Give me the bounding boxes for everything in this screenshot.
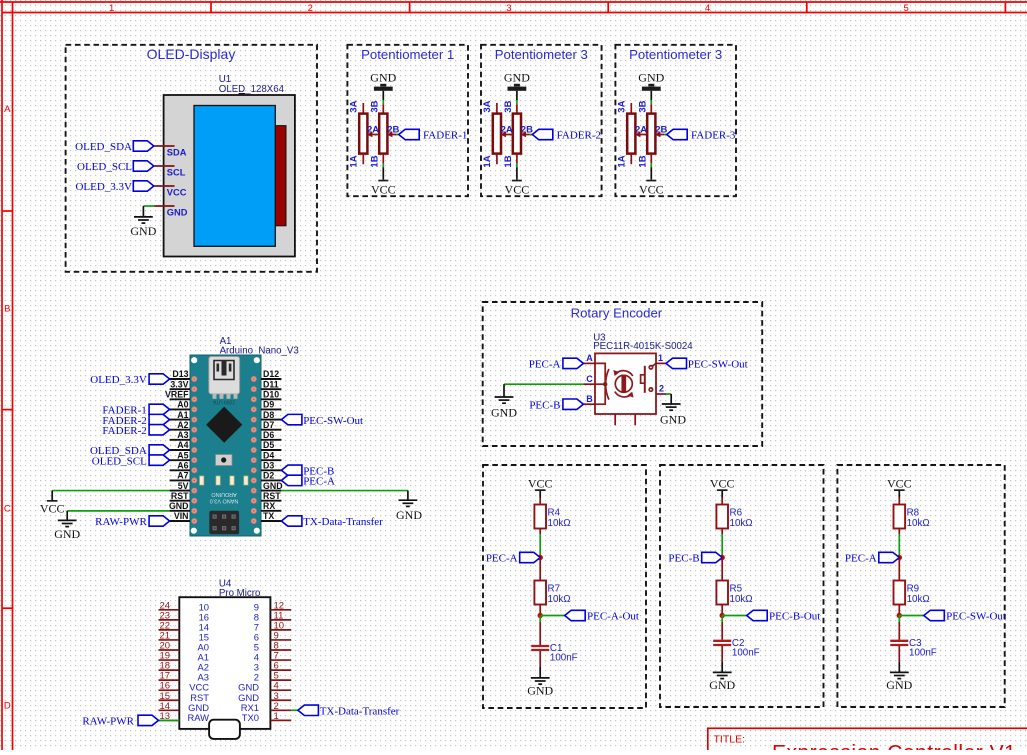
svg-text:OLED_SCL: OLED_SCL (92, 455, 147, 467)
wire to out junction (539, 605, 541, 616)
encoder pin B (583, 394, 595, 404)
svg-text:D9: D9 (263, 400, 274, 410)
power VCC (887, 476, 912, 491)
svg-text:1A: 1A (348, 155, 359, 167)
svg-text:GND: GND (396, 508, 422, 522)
junction node out (720, 613, 725, 618)
wire gnd to 3B (516, 91, 518, 104)
Rotary Encoder block frame (483, 302, 763, 446)
svg-text:R9: R9 (907, 583, 920, 594)
svg-text:PEC-A: PEC-A (486, 553, 518, 565)
wire junction to cap (721, 616, 723, 640)
net flag FADER-2 (532, 129, 601, 141)
net flag PEC-A at U3 (529, 358, 584, 370)
Potentiometer 3 block frame (FADER-2) (481, 45, 602, 196)
svg-text:VCC: VCC (505, 182, 530, 196)
svg-text:VREF: VREF (165, 389, 189, 399)
svg-text:1: 1 (109, 3, 114, 14)
svg-text:GND: GND (709, 678, 735, 692)
wire to PEC-B-Out flag (722, 615, 747, 617)
net flag PEC-A at A1 (281, 475, 335, 487)
svg-text:5V: 5V (178, 481, 189, 491)
net flag PEC-B at U3 (529, 399, 583, 411)
wire 2B to FADER-3 (664, 134, 667, 136)
pin 13 (RAW) of U4 (159, 711, 210, 723)
net flag PEC-SW-Out at U3 (666, 358, 748, 370)
junction at encoder C (603, 382, 607, 386)
net flag FADER-1 (399, 129, 468, 141)
wire VCC to top resistor (898, 491, 900, 505)
wire gnd to 3B (650, 91, 652, 104)
wire to junction (539, 529, 541, 558)
svg-text:3A: 3A (616, 100, 627, 112)
net flag PEC-A (486, 552, 540, 564)
wire junction to cap (898, 616, 900, 640)
svg-text:OLED-Display: OLED-Display (147, 46, 236, 62)
svg-text:10kΩ: 10kΩ (730, 518, 753, 529)
svg-text:A0: A0 (177, 400, 188, 410)
VCC at pot (505, 180, 530, 197)
pin RX (right) of A1 (261, 501, 281, 511)
power VCC (710, 476, 735, 491)
pin A0 (left 4) of A1 (170, 400, 190, 410)
pot gang A (627, 103, 635, 164)
svg-text:1B: 1B (503, 155, 514, 167)
pin D6 (right) of A1 (261, 430, 281, 440)
svg-text:R6: R6 (730, 507, 743, 518)
svg-text:D: D (4, 701, 11, 712)
net flag PEC-B at A1 (281, 465, 334, 477)
wiper 2A arrow (367, 132, 379, 137)
resistor R4 10k (534, 505, 570, 530)
Potentiometer 1 block frame (FADER-1) (347, 45, 468, 196)
svg-text:10kΩ: 10kΩ (907, 518, 930, 529)
Potentiometer 3 title (495, 47, 588, 62)
svg-text:SDA: SDA (167, 147, 187, 157)
encoder pin A (583, 353, 595, 363)
pin 24 (10) of U4 (159, 600, 210, 612)
net flag TX-Data-Transfer at A1 (281, 516, 383, 528)
pin A7 (left 11) of A1 (170, 471, 190, 481)
resistor R6 10k (716, 505, 752, 530)
wire junction to bottom resistor (539, 558, 541, 581)
svg-text:PEC-SW-Out: PEC-SW-Out (946, 611, 1006, 623)
svg-text:RAW-PWR: RAW-PWR (95, 516, 147, 528)
pin 3 (GND) of U4 (238, 691, 291, 703)
wiper 2A arrow (501, 132, 513, 137)
junction node out (897, 613, 902, 618)
svg-text:PEC-SW-Out: PEC-SW-Out (303, 415, 363, 427)
net flag PEC-A (845, 552, 899, 564)
pin D4 (right) of A1 (261, 450, 281, 460)
pin 10 (7) of U4 (254, 620, 291, 632)
encoder internals (595, 363, 656, 404)
op U1 refdes (219, 74, 285, 95)
svg-text:GND: GND (660, 412, 686, 426)
wire pin2 to GND (666, 394, 671, 404)
pin 1 (TX0) of U4 (242, 711, 291, 723)
svg-text:R7: R7 (548, 583, 561, 594)
svg-text:PEC-B: PEC-B (529, 399, 560, 411)
Potentiometer 3 block frame (FADER-3) (615, 45, 736, 196)
svg-text:RST: RST (171, 491, 189, 501)
wire GND to U1 (143, 206, 154, 217)
capacitor C2 100nF (713, 641, 731, 645)
svg-text:Expression Controller V1: Expression Controller V1 (772, 742, 1016, 751)
pin 3.3V (left 2) of A1 (170, 379, 190, 389)
svg-text:D10: D10 (263, 389, 279, 399)
svg-text:A5: A5 (177, 450, 188, 460)
svg-text:GND: GND (527, 684, 553, 698)
net flag PEC-B-Out (747, 610, 821, 622)
pin RST (right) of A1 (261, 491, 281, 501)
ground left of A1 (54, 520, 80, 540)
pin D7 (right) of A1 (261, 420, 281, 430)
svg-text:GND: GND (886, 678, 912, 692)
svg-text:PEC11R-4015K-S0024: PEC11R-4015K-S0024 (593, 341, 693, 352)
svg-text:1A: 1A (482, 155, 493, 167)
svg-text:TX: TX (263, 511, 274, 521)
svg-text:VIN: VIN (174, 511, 189, 521)
OLED-Display title (147, 46, 236, 62)
svg-text:4: 4 (705, 3, 710, 14)
wire 5V to VCC (52, 491, 169, 500)
pin SCL of U1 (154, 166, 185, 177)
VCC at pot (371, 180, 396, 197)
net flag FADER-2 at A1 (102, 425, 169, 437)
pin D13 (left 1) of A1 (170, 369, 190, 379)
pin 6 (3) of U4 (254, 661, 291, 673)
Potentiometer 3 title (629, 47, 722, 62)
svg-text:TX0: TX0 (242, 712, 259, 723)
svg-text:PEC-B: PEC-B (668, 553, 699, 565)
svg-text:3A: 3A (482, 100, 493, 112)
capacitor C3 100nF (890, 641, 908, 645)
svg-text:D8: D8 (263, 410, 274, 420)
title block (708, 728, 1027, 755)
VCC at pot (639, 180, 664, 197)
svg-text:TX-Data-Transfer: TX-Data-Transfer (320, 706, 400, 718)
svg-text:VCC: VCC (710, 476, 735, 490)
filter block C3 frame (837, 465, 1004, 707)
pin D3 (right) of A1 (261, 460, 281, 470)
wire GND left (67, 511, 169, 521)
GND text at pot (370, 70, 396, 84)
svg-text:2: 2 (308, 3, 313, 14)
svg-text:100nF: 100nF (909, 647, 937, 658)
svg-text:GND: GND (491, 405, 517, 419)
pin 5V (left 12) of A1 (170, 481, 190, 491)
svg-text:PEC-A: PEC-A (529, 359, 561, 371)
svg-text:RX: RX (263, 501, 275, 511)
ground bar symbol (508, 84, 527, 91)
encoder pin 1 (656, 353, 666, 364)
svg-text:Potentiometer 3: Potentiometer 3 (495, 47, 588, 62)
pin A3 (left 7) of A1 (170, 430, 190, 440)
pin 4 (GND) of U4 (238, 681, 291, 693)
svg-text:OLED_3.3V: OLED_3.3V (90, 374, 147, 386)
svg-text:OLED_SDA: OLED_SDA (75, 141, 132, 153)
pin VCC of U1 (154, 186, 186, 197)
power VCC left (40, 500, 65, 515)
junction node PEC-A (538, 555, 543, 560)
svg-text:3.3V: 3.3V (170, 379, 188, 389)
wire 1B to VCC (516, 164, 518, 180)
GND text at pot (504, 70, 530, 84)
pin labels 2A 2B (635, 125, 667, 136)
capacitor C1 100nF (531, 646, 549, 650)
wiper 2A arrow (635, 132, 647, 137)
svg-text:5: 5 (903, 3, 908, 14)
svg-text:Potentiometer 1: Potentiometer 1 (361, 47, 454, 62)
junction node PEC-A (897, 555, 902, 560)
net flag OLED_3.3V at A1 (90, 374, 169, 386)
ground of filter (527, 678, 553, 698)
svg-text:C: C (586, 374, 593, 384)
pin TX (right) of A1 (261, 511, 281, 521)
svg-text:GND: GND (167, 207, 188, 217)
svg-text:FADER-3: FADER-3 (691, 130, 736, 142)
svg-text:PEC-A-Out: PEC-A-Out (587, 611, 639, 623)
net flag RAW-PWR at U4 (82, 715, 158, 727)
wire to out junction (721, 605, 723, 616)
pin GND of U1 (154, 206, 187, 217)
svg-text:D2: D2 (263, 471, 274, 481)
pin A5 (left 9) of A1 (170, 450, 190, 460)
encoder U3 body (595, 353, 656, 414)
svg-text:VCC: VCC (40, 501, 65, 515)
OLED-Display block frame (66, 45, 317, 272)
net flag PEC-SW-Out at A1 (281, 414, 363, 426)
svg-text:10kΩ: 10kΩ (907, 594, 930, 605)
pin labels 3A 3B 1A 1B (616, 100, 648, 167)
pin 20 (A0) of U4 (159, 641, 210, 653)
svg-text:A2: A2 (177, 420, 188, 430)
svg-text:GND: GND (54, 527, 80, 541)
pin labels 2A 2B (367, 125, 399, 136)
junction node PEC-B (720, 555, 725, 560)
svg-text:GND: GND (169, 501, 189, 511)
svg-text:GND: GND (370, 70, 396, 84)
svg-text:3B: 3B (637, 100, 648, 112)
ground right of A1 (396, 500, 422, 522)
mcu A1 Arduino Nano board (190, 355, 261, 536)
net flag FADER-2 at A1 (102, 414, 169, 426)
svg-text:PEC-B-Out: PEC-B-Out (769, 611, 820, 623)
net flag OLED_SCL at A1 (92, 455, 170, 467)
svg-text:GND: GND (638, 70, 664, 84)
svg-text:RAW-PWR: RAW-PWR (82, 716, 134, 728)
svg-text:D6: D6 (263, 430, 274, 440)
net flag RAW-PWR at A1 (95, 516, 169, 528)
svg-text:1: 1 (658, 353, 663, 363)
wire TX-Data-Transfer to U4 (291, 709, 298, 711)
svg-text:3B: 3B (503, 100, 514, 112)
svg-text:VCC: VCC (371, 182, 396, 196)
pin 7 (4) of U4 (254, 651, 291, 663)
wiper 2B arrow (387, 132, 396, 137)
pin 11 (8) of U4 (254, 610, 291, 622)
net flag PEC-B (668, 552, 722, 564)
filter block C1 frame (483, 465, 646, 708)
wire to PEC-SW-Out flag (899, 615, 924, 617)
pin RST (left 13) of A1 (170, 491, 190, 501)
pin D2 (right) of A1 (261, 471, 281, 481)
svg-text:RAW: RAW (187, 712, 209, 723)
wire to junction (898, 529, 900, 558)
net flag OLED_SDA (75, 141, 154, 153)
svg-text:OLED_SCL: OLED_SCL (77, 161, 132, 173)
net flag OLED_3.3V (75, 181, 153, 193)
wire GND right (281, 491, 408, 501)
pin 19 (A1) of U4 (159, 651, 210, 663)
encoder pin 2 (656, 384, 666, 394)
svg-text:R8: R8 (907, 507, 920, 518)
svg-text:FADER-1: FADER-1 (423, 130, 467, 142)
net flag TX-Data-Transfer at U4 (298, 705, 400, 717)
svg-text:TX-Data-Transfer: TX-Data-Transfer (303, 516, 383, 528)
resistor R5 10k (716, 581, 752, 606)
svg-text:A1: A1 (177, 410, 188, 420)
wiper 2B arrow (655, 132, 664, 137)
svg-text:A7: A7 (177, 471, 188, 481)
mcu U4 body (179, 597, 270, 739)
svg-text:D3: D3 (263, 460, 274, 470)
wire 2B to FADER-2 (530, 134, 533, 136)
svg-text:10kΩ: 10kΩ (548, 518, 571, 529)
ground bar symbol (642, 84, 661, 91)
svg-text:10kΩ: 10kΩ (730, 594, 753, 605)
svg-text:A3: A3 (177, 430, 188, 440)
svg-text:GND: GND (504, 70, 530, 84)
svg-text:100nF: 100nF (550, 653, 578, 664)
pin 23 (16) of U4 (159, 610, 210, 622)
svg-text:1B: 1B (369, 155, 380, 167)
power VCC (528, 476, 553, 491)
svg-text:VCC: VCC (167, 187, 187, 197)
svg-text:D4: D4 (263, 450, 274, 460)
wire RAW-PWR to U4 (159, 719, 180, 721)
wire 1B to VCC (650, 164, 652, 180)
frame column numbers (109, 3, 909, 14)
net flag FADER-3 (667, 129, 736, 141)
svg-text:NANO V3.0: NANO V3.0 (210, 498, 239, 504)
pin 12 (9) of U4 (254, 600, 291, 612)
svg-text:VCC: VCC (528, 476, 553, 490)
svg-text:OLED_3.3V: OLED_3.3V (75, 181, 132, 193)
svg-text:Rotary Encoder: Rotary Encoder (571, 306, 663, 321)
svg-text:PEC-SW-Out: PEC-SW-Out (688, 359, 748, 371)
pin 16 (VCC) of U4 (159, 681, 210, 693)
wire junction to cap (539, 616, 541, 646)
frame row letters (4, 104, 11, 712)
pot gang A (359, 103, 367, 164)
net flag OLED_SCL (77, 161, 154, 173)
svg-text:R4: R4 (548, 507, 561, 518)
ground bar symbol (374, 84, 393, 91)
pin 5 (2) of U4 (254, 671, 291, 683)
ground of filter (709, 672, 735, 692)
ground of filter (886, 672, 912, 692)
pin D12 (right) of A1 (261, 369, 281, 379)
wire cap to GND (721, 646, 723, 672)
wire 2B to FADER-1 (396, 134, 399, 136)
svg-text:10kΩ: 10kΩ (548, 594, 571, 605)
svg-text:TITLE:: TITLE: (714, 734, 746, 746)
svg-text:3B: 3B (369, 100, 380, 112)
ground right of U3 (660, 404, 686, 426)
svg-text:GND: GND (130, 224, 156, 238)
svg-text:3A: 3A (348, 100, 359, 112)
ground left of U3 (491, 397, 517, 419)
svg-text:ARDUINO: ARDUINO (211, 491, 237, 497)
net flag PEC-A-Out (565, 610, 639, 622)
wire to PEC-A-Out flag (540, 615, 565, 617)
pin D5 (right) of A1 (261, 440, 281, 450)
svg-text:VCC: VCC (887, 476, 912, 490)
svg-text:D5: D5 (263, 440, 274, 450)
svg-text:100nF: 100nF (732, 647, 760, 658)
Rotary Encoder title (571, 306, 663, 321)
resistor R7 10k (534, 581, 570, 606)
pin GND (left 14) of A1 (169, 501, 190, 511)
net flag PEC-SW-Out (924, 610, 1006, 622)
svg-text:D7: D7 (263, 420, 274, 430)
pin VREF (left 3) of A1 (165, 389, 190, 399)
pin 17 (A3) of U4 (159, 671, 210, 683)
svg-text:A4: A4 (177, 440, 188, 450)
svg-text:FADER-2: FADER-2 (102, 425, 146, 437)
pin D9 (right) of A1 (261, 400, 281, 410)
pin 9 (6) of U4 (254, 630, 291, 642)
pot gang B (513, 104, 521, 164)
svg-text:FADER-2: FADER-2 (557, 130, 601, 142)
svg-text:PEC-A: PEC-A (845, 553, 877, 565)
pin A4 (left 8) of A1 (170, 440, 190, 450)
svg-text:Potentiometer 3: Potentiometer 3 (629, 47, 722, 62)
wire cap to GND (898, 646, 900, 672)
wire junction to bottom resistor (898, 558, 900, 581)
wire to out junction (898, 605, 900, 616)
filter block C2 frame (660, 465, 824, 707)
svg-text:RST: RST (263, 491, 281, 501)
pin A2 (left 6) of A1 (170, 420, 190, 430)
pin A1 (left 5) of A1 (170, 410, 190, 420)
svg-text:GND: GND (263, 481, 283, 491)
svg-text:OLED_128X64: OLED_128X64 (219, 84, 285, 95)
wire C to GND (504, 384, 583, 397)
svg-text:2: 2 (659, 384, 664, 394)
mcu U4 refdes (219, 579, 260, 599)
wire VCC to top resistor (539, 491, 541, 505)
pin 22 (14) of U4 (159, 620, 210, 632)
pin labels 3A 3B 1A 1B (482, 100, 514, 167)
svg-text:R5: R5 (730, 583, 743, 594)
wire gnd to 3B (382, 91, 384, 104)
pin 14 (GND) of U4 (159, 701, 210, 713)
ground at U1 (130, 217, 156, 238)
resistor R9 10k (894, 581, 930, 606)
mcu A1 refdes (220, 336, 299, 357)
svg-text:1: 1 (274, 711, 279, 722)
svg-text:A: A (586, 353, 593, 363)
svg-text:D12: D12 (263, 369, 279, 379)
pin 21 (15) of U4 (159, 630, 210, 642)
pin 15 (RST) of U4 (159, 691, 210, 703)
svg-text:2009 UTA: 2009 UTA (212, 399, 235, 405)
svg-text:D11: D11 (263, 379, 279, 389)
pot gang B (647, 104, 655, 164)
